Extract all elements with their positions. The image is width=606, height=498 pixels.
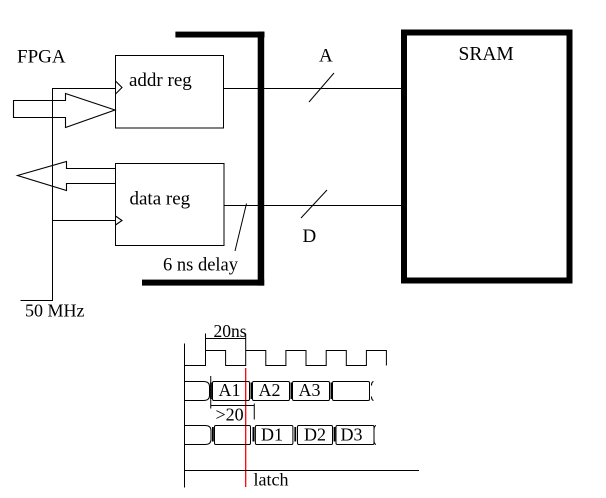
wire clock vertical trunk	[52, 88, 54, 301]
memory U3 SRAM box	[404, 33, 570, 281]
address input bus arrow into addr reg	[14, 94, 116, 128]
clock source terminal tick	[21, 300, 53, 302]
signal A initial segment	[185, 382, 210, 401]
bus value box A2	[253, 382, 290, 401]
bus value box D3	[336, 426, 374, 445]
svg-text:SRAM: SRAM	[459, 44, 514, 65]
20ns dimension bracket line	[206, 338, 246, 340]
wire clock to addr reg	[53, 88, 116, 90]
wire A bus addr reg to SRAM	[224, 88, 402, 90]
latch time red marker line	[245, 368, 247, 487]
transition mark D1/D2	[294, 427, 296, 442]
wire clock to data reg	[53, 220, 116, 222]
wire D bus data reg to SRAM	[224, 205, 402, 207]
data output bus arrow out of data reg	[18, 162, 116, 191]
transition mark D0/D1	[253, 427, 255, 442]
6 ns delay wall top thick bar	[175, 32, 264, 38]
svg-text:D3: D3	[341, 424, 363, 444]
transition mark A3/A4	[330, 383, 332, 400]
register U2 data reg box	[116, 164, 225, 246]
svg-text:50 MHz: 50 MHz	[25, 301, 85, 321]
greater than 20 bracket left tick	[210, 376, 212, 409]
transition mark D row start	[212, 427, 214, 442]
clock input triangle on addr reg	[116, 81, 123, 94]
greater than 20 bracket right tick	[253, 404, 255, 420]
end stub of A row	[372, 382, 374, 401]
bus width slash on D	[301, 190, 327, 218]
svg-text:A3: A3	[299, 380, 321, 400]
svg-text:addr reg: addr reg	[129, 70, 192, 91]
clock waveform	[185, 351, 387, 366]
bus value box A4 empty	[333, 382, 370, 401]
svg-text:>20: >20	[216, 405, 244, 425]
bus width slash on A	[309, 73, 334, 102]
6 ns delay wall vertical thick bar	[258, 32, 265, 286]
svg-text:A1: A1	[219, 380, 241, 400]
transition mark A2/A3	[290, 383, 292, 400]
svg-text:data reg: data reg	[130, 189, 191, 210]
bus value box A1	[213, 382, 250, 401]
6 ns delay wall bottom thick bar	[142, 280, 264, 286]
greater than 20 bracket line	[211, 405, 255, 407]
svg-text:A: A	[319, 46, 333, 67]
bus value box D1	[255, 426, 293, 445]
svg-text:FPGA: FPGA	[17, 47, 66, 68]
timing diagram left axis	[184, 344, 186, 488]
svg-text:D: D	[303, 226, 317, 247]
register U1 addr reg box	[116, 56, 224, 129]
transition mark A1/A2	[250, 383, 252, 400]
signal D initial segment	[185, 426, 212, 445]
svg-text:6 ns delay: 6 ns delay	[163, 256, 239, 276]
timing diagram baseline	[185, 470, 420, 472]
20ns bracket left tick	[205, 334, 207, 351]
svg-text:D1: D1	[261, 424, 283, 444]
end stub of D row	[374, 426, 376, 445]
clock input triangle on data reg	[116, 216, 123, 225]
bus value box A3	[293, 382, 330, 401]
transition mark A0/A1	[210, 383, 212, 400]
svg-text:D2: D2	[304, 424, 326, 444]
pointer line to delay wall	[235, 204, 247, 252]
svg-text:A2: A2	[259, 380, 281, 400]
transition mark D2/D3	[334, 427, 336, 442]
bus value box D2	[298, 426, 333, 445]
bus value box D0 empty	[215, 426, 251, 445]
20ns bracket right tick	[245, 334, 247, 351]
svg-text:latch: latch	[254, 470, 289, 490]
